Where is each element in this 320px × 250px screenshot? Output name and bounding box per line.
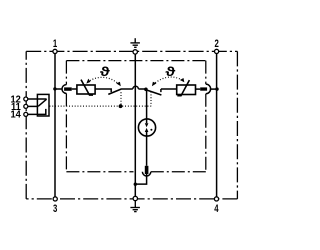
wire terminal 11 into box xyxy=(28,105,38,107)
wire: centre earth line top to bottom xyxy=(134,54,136,196)
gas discharge tube circle xyxy=(138,119,155,136)
thermal disconnector fuse left (filled) xyxy=(64,87,72,90)
right thermal switch blade xyxy=(147,90,161,95)
junction node on earth line bottom xyxy=(134,183,137,186)
arrowhead left arc left end xyxy=(86,79,90,84)
outer boundary left edge xyxy=(25,51,27,199)
inner boundary bottom edge right segment xyxy=(151,171,206,173)
wire: left branch from node to disconnector xyxy=(55,88,62,90)
top earth symbol xyxy=(130,38,140,47)
gas discharge tube branch upper wire xyxy=(146,89,148,119)
wire hop over centre line xyxy=(133,86,139,89)
svg-text:1: 1 xyxy=(53,37,57,50)
dotted thermal arc left xyxy=(88,77,120,84)
dotted thermal arc right xyxy=(153,77,184,85)
gas discharge tube branch lower wire xyxy=(146,136,148,166)
inner boundary right edge bump around disconnector xyxy=(206,84,211,94)
junction node centre of branch xyxy=(144,88,148,92)
wire: left vertical line terminal 1 to terminal 3 xyxy=(54,54,56,197)
svg-text:14: 14 xyxy=(10,109,21,120)
inner boundary right edge lower segment xyxy=(205,94,207,172)
arrowhead right arc right end xyxy=(180,78,184,82)
outer boundary bottom edge xyxy=(26,198,237,200)
junction node on right line xyxy=(215,87,218,90)
wire: hop to centre node xyxy=(138,88,146,90)
inner boundary left edge bump around disconnector xyxy=(62,85,66,94)
arrowhead right arc left end xyxy=(152,82,157,87)
GDT gas dot xyxy=(150,129,152,131)
wire: centre node to right switch nub xyxy=(161,89,177,92)
thermal disconnector fuse right (filled) xyxy=(200,87,207,90)
varistor right body xyxy=(177,85,196,95)
arrowhead left arc right end xyxy=(116,82,121,87)
inner boundary bottom edge left segment xyxy=(66,171,133,173)
inner boundary left edge upper segment xyxy=(65,61,67,85)
GDT bottom electrode arrow xyxy=(146,132,148,136)
inner protection-module boundary (dash-dot) top edge xyxy=(66,60,205,62)
terminal 12 circle xyxy=(24,97,28,101)
varistor right diagonal with foot xyxy=(177,80,189,96)
inner boundary right edge upper segment xyxy=(205,61,207,85)
GDT top electrode arrow xyxy=(146,119,148,123)
terminal 14 circle xyxy=(24,112,28,116)
varistor left body xyxy=(77,85,95,94)
remote signalling contact box xyxy=(37,94,49,116)
varistor left diagonal with foot xyxy=(81,80,93,96)
inner boundary bottom edge bump around disconnector xyxy=(142,172,150,176)
bottom earth symbol xyxy=(130,201,140,212)
inner boundary left edge lower segment xyxy=(65,93,67,171)
svg-text:3: 3 xyxy=(53,202,57,215)
terminal 1 circle xyxy=(53,49,57,53)
terminal 3 circle xyxy=(53,197,57,201)
thermal disconnector fuse on GDT branch (filled) xyxy=(145,166,149,174)
changeover blade 11 to 12 xyxy=(38,99,46,106)
terminal 4 circle xyxy=(214,197,218,201)
wire: GDT disconnector to corner and to earth line xyxy=(135,174,146,184)
wire terminal 12 into box xyxy=(28,98,47,100)
wire: left varistor to switch contact, contact nub xyxy=(95,89,111,92)
wire: left disconnector to varistor xyxy=(72,88,77,90)
dotted linkage vertical to left switch xyxy=(120,92,122,106)
terminal 2 circle xyxy=(215,49,219,53)
terminal 11 circle xyxy=(24,104,28,108)
svg-text:4: 4 xyxy=(214,202,219,215)
wire terminal 14 into box with contact tick xyxy=(28,109,46,115)
dotted mechanical linkage horizontal xyxy=(50,105,151,107)
wire: right varistor to right disconnector xyxy=(196,88,201,90)
junction node on left line xyxy=(53,87,56,90)
wire: left switch pivot to hop xyxy=(122,88,133,90)
dotted linkage vertical to right switch xyxy=(150,92,152,107)
wire: right vertical line terminal 2 to terminal 4 xyxy=(216,54,218,197)
mechanical linkage node dot xyxy=(119,104,123,108)
wire: right disconnector to right node xyxy=(210,88,217,90)
left thermal switch blade xyxy=(108,89,122,95)
outer device boundary (dash-dot) top edge xyxy=(26,50,237,52)
bottom earth terminal circle xyxy=(133,196,137,200)
svg-text:2: 2 xyxy=(214,37,218,50)
top earth terminal circle xyxy=(133,50,137,54)
outer boundary right edge xyxy=(236,51,238,199)
